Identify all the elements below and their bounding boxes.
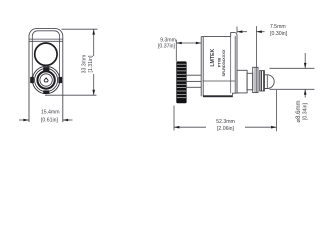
dim 15.4mm right arrow <box>63 119 68 122</box>
front view tab east <box>58 77 62 83</box>
front view nut ring thick <box>37 71 54 88</box>
front view bushing outer circle <box>32 66 59 93</box>
svg-text:LMTEK: LMTEK <box>210 49 216 67</box>
body top step <box>231 33 237 94</box>
dim 7.5mm left extension <box>236 27 238 34</box>
shaft bottom line <box>187 86 202 88</box>
dim 33.3mm arrow down <box>92 90 95 95</box>
hex nut flat line 2 <box>256 67 258 92</box>
svg-text:33.3mm: 33.3mm <box>81 55 87 74</box>
dim 7.5mm left arrow <box>237 30 242 33</box>
dim 33.3mm line lower segment <box>93 74 95 95</box>
washer inner line 1 <box>260 71 262 91</box>
dia 8.6 bottom stem <box>304 89 306 97</box>
dia 8.6 arrow down <box>304 63 307 68</box>
dia 8.6 bottom extension line <box>270 88 315 90</box>
dim 52.3 line right segment <box>245 126 277 128</box>
dim 9.3mm left arrow <box>176 42 181 45</box>
body internal joint line <box>230 37 232 94</box>
front view tab north <box>43 67 49 71</box>
dim 33.3mm bottom extension line <box>45 94 97 96</box>
svg-text:[0.61in]: [0.61in] <box>41 117 59 123</box>
dim 52.3 left arrow <box>174 126 179 129</box>
svg-text:[1.31in]: [1.31in] <box>88 55 94 73</box>
front view upper horizontal line 2 <box>29 40 63 42</box>
body top edge <box>201 36 231 38</box>
shaft neck <box>247 73 253 90</box>
body bottom right step <box>233 93 237 95</box>
side view knob extension line 9.3 <box>175 40 177 62</box>
dim 7.5mm right extension <box>255 26 257 67</box>
svg-text:[0.34in]: [0.34in] <box>303 102 309 120</box>
dim 7.5mm right arrow <box>256 30 261 33</box>
dim 52.3 right arrow <box>271 126 276 129</box>
dim 7.5mm outside tail <box>256 31 264 33</box>
svg-text:⌀8.6mm: ⌀8.6mm <box>296 101 302 123</box>
front view tab west <box>30 77 34 83</box>
thumbwheel knurling <box>177 64 186 98</box>
hex nut flat line 1 <box>254 67 256 92</box>
dim 7.5mm line <box>237 31 247 33</box>
dim 33.3mm arrow up <box>92 29 95 34</box>
svg-text:SR-RD34XXXX: SR-RD34XXXX <box>221 49 226 76</box>
svg-text:52.3mm: 52.3mm <box>216 119 235 125</box>
body inner left edge <box>202 37 204 97</box>
front view wheel circle <box>35 43 57 65</box>
dim 15.4mm left tail <box>19 119 29 121</box>
body seam centerline <box>203 80 236 82</box>
thumbwheel knob <box>176 61 186 103</box>
dome tip <box>264 75 274 89</box>
front view outer body outline <box>29 29 63 122</box>
dim 15.4mm left arrow <box>23 119 28 122</box>
dome flat face line <box>266 75 268 89</box>
dim 33.3mm line upper segment <box>93 29 95 56</box>
front view bushing circle 2 <box>35 68 58 91</box>
dim 15.4mm right tail <box>63 119 73 121</box>
dia 8.6 top stem <box>304 53 306 68</box>
dim 33.3mm top extension line <box>62 28 98 30</box>
svg-text:[0.30in]: [0.30in] <box>270 31 288 37</box>
front view upper horizontal line 1 <box>29 38 63 40</box>
svg-text:[0.37in]: [0.37in] <box>158 43 176 49</box>
body inner right edge <box>234 36 236 93</box>
body outer left edge <box>200 37 202 97</box>
front view tab south <box>43 90 49 93</box>
svg-text:15.4mm: 15.4mm <box>41 109 60 115</box>
washer inner line 2 <box>263 71 265 91</box>
dim 52.3 line left segment <box>174 126 206 128</box>
shaft top line <box>187 74 202 76</box>
dim 9.3mm line <box>176 42 201 44</box>
svg-text:7.5mm: 7.5mm <box>270 24 286 30</box>
dia 8.6 arrow up <box>304 89 307 94</box>
dim 52.3 left extension <box>173 106 175 131</box>
front view inner shaft circle <box>40 74 52 86</box>
front view inner body outline <box>32 31 59 78</box>
svg-text:[2.06in]: [2.06in] <box>217 126 235 132</box>
dia 8.6 top extension line <box>270 67 315 69</box>
dim 9.3mm right arrow <box>196 42 201 45</box>
body bottom dark base <box>203 95 233 97</box>
bushing <box>237 70 247 93</box>
shaft middle line <box>187 80 202 82</box>
front view center keyway glyph <box>44 78 48 82</box>
hex nut <box>253 67 258 92</box>
washer <box>260 71 265 91</box>
dim 52.3 right extension <box>276 90 278 131</box>
